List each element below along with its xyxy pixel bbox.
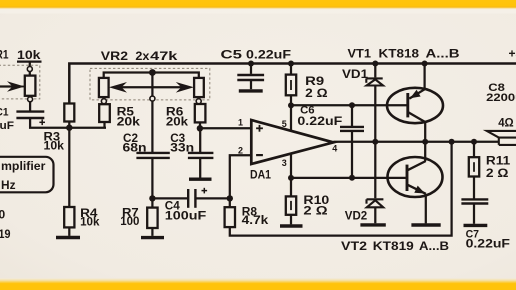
svg-text:A...B: A...B: [419, 239, 449, 253]
svg-text:VT2: VT2: [341, 239, 367, 253]
svg-text:4Ω: 4Ω: [498, 115, 514, 129]
svg-text:2 Ω: 2 Ω: [486, 166, 509, 180]
svg-text:mplifier: mplifier: [1, 159, 46, 173]
svg-text:VT1: VT1: [348, 47, 372, 61]
svg-text:10k: 10k: [80, 215, 100, 229]
svg-text:4.7k: 4.7k: [242, 213, 269, 227]
svg-text:C1: C1: [0, 107, 9, 119]
svg-text:KT819: KT819: [373, 239, 414, 253]
svg-text:2 Ω: 2 Ω: [303, 204, 328, 218]
svg-text:R1: R1: [0, 47, 9, 61]
svg-text:+36: +36: [509, 47, 516, 61]
svg-text:2: 2: [238, 146, 243, 156]
svg-text:VD2: VD2: [345, 209, 368, 223]
svg-text:2 Ω: 2 Ω: [305, 86, 328, 100]
svg-text:C5: C5: [221, 47, 243, 61]
svg-text:VR2: VR2: [101, 49, 129, 63]
svg-text:A...B: A...B: [426, 47, 460, 61]
svg-text:3: 3: [282, 158, 287, 168]
svg-text:10k: 10k: [44, 138, 65, 152]
svg-text:100uF: 100uF: [165, 209, 206, 223]
svg-text:47k: 47k: [150, 49, 178, 63]
svg-text:33n: 33n: [170, 141, 194, 155]
svg-text:uF: uF: [0, 120, 14, 132]
svg-text:4: 4: [332, 144, 337, 154]
svg-text:KT818: KT818: [379, 47, 420, 61]
svg-text:2200u: 2200u: [486, 92, 516, 104]
svg-text:19: 19: [0, 227, 11, 241]
svg-text:20k: 20k: [166, 114, 188, 128]
svg-text:DA1: DA1: [250, 167, 271, 181]
svg-text:0.22uF: 0.22uF: [466, 237, 510, 251]
svg-text:0: 0: [0, 208, 6, 222]
svg-text:20k: 20k: [117, 114, 141, 128]
svg-text:2x: 2x: [135, 49, 149, 63]
svg-text:0.22uF: 0.22uF: [297, 114, 342, 128]
svg-text:VD1: VD1: [342, 67, 368, 81]
svg-text:1: 1: [238, 118, 243, 128]
svg-text:100: 100: [120, 214, 140, 228]
svg-text:5: 5: [282, 119, 287, 129]
svg-text:0.22uF: 0.22uF: [246, 47, 291, 61]
svg-text:68n: 68n: [123, 141, 147, 155]
svg-text:10k: 10k: [17, 48, 41, 62]
svg-text:Hz: Hz: [1, 178, 16, 192]
